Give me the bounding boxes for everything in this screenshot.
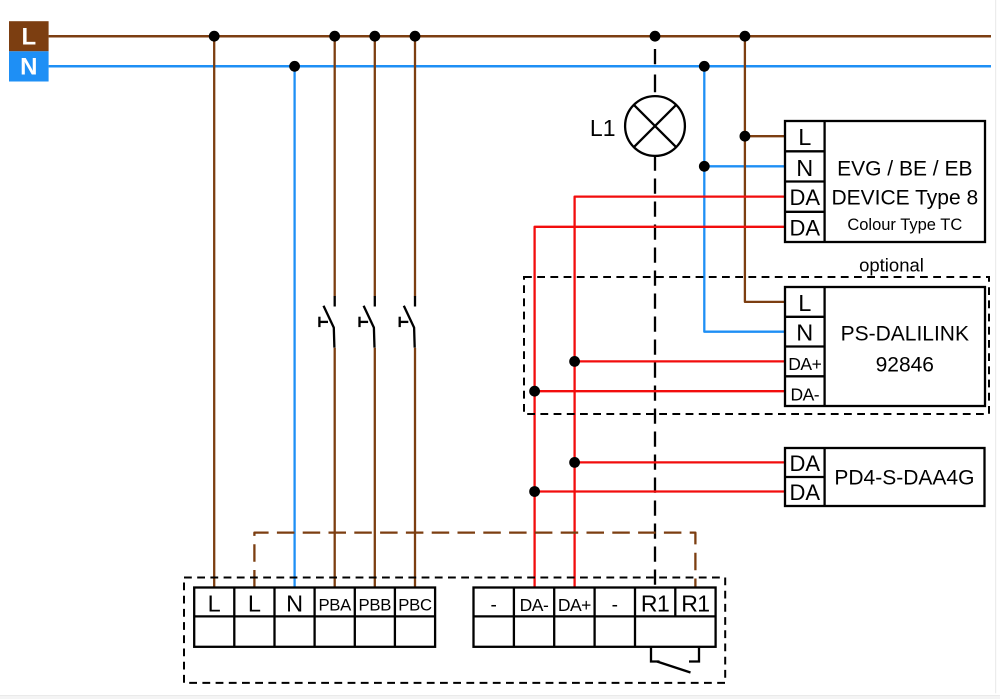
svg-text:DA: DA [790,185,821,210]
wire: brown from L bus to PS-DALILINK L [745,36,785,302]
junction: L bus / lamp dashed drop [650,31,661,42]
junction: DA+ / PS branch [569,356,580,367]
L bus terminal label [9,21,49,51]
EVG ballast U1 (DALI Device Type 8) [785,121,985,242]
wire: dashed lamp feed (L bus to lamp) [654,49,656,92]
left terminal block [194,588,435,647]
svg-text:N: N [20,54,37,81]
push button S1 (PBA) [319,296,334,348]
device dashed enclosure (bottom) [184,578,725,683]
svg-text:DA+: DA+ [788,354,821,374]
svg-text:DA-: DA- [520,595,549,615]
optional dashed enclosure [524,277,989,414]
svg-text:-: - [612,595,618,616]
svg-text:DA: DA [790,451,821,476]
svg-text:PBB: PBB [359,596,392,615]
svg-text:L: L [798,290,811,316]
svg-text:N: N [286,590,303,616]
wire: red DA+ branch to PS-DALILINK DA+ [575,360,785,362]
svg-text:L: L [21,24,36,51]
junction: L bus / S2 drop [369,31,380,42]
svg-text:DEVICE Type 8: DEVICE Type 8 [831,186,978,209]
svg-text:DA+: DA+ [558,595,591,615]
push button S3 (PBC) [400,296,415,348]
svg-text:PS-DALILINK: PS-DALILINK [841,322,969,345]
wire: red DALI DA- (EVG DA to terminal DA-) [535,227,785,588]
PS-DALILINK power supply U2 [785,287,985,406]
wire: L bus (brown) [49,35,991,38]
wire: red DA+ branch to PD4 DA [575,461,785,463]
svg-text:L: L [248,590,261,616]
wire: blue branch to EVG N [704,165,785,167]
svg-text:92846: 92846 [876,353,934,376]
wire: brown drop from L bus to push button S1 [334,36,336,296]
wire: red DA- branch to PD4 DA [535,490,785,492]
wire: blue drop from N bus to terminal N [293,66,295,588]
wire: brown drop from L bus to terminal L (left block) [213,36,215,588]
svg-text:L: L [208,590,221,616]
page footer strip [0,696,1000,699]
lamp L1 [625,96,685,156]
wire: push button S1 to terminal PBA [334,348,336,588]
wire: red DA- branch to PS-DALILINK DA- [535,390,785,392]
wire: dashed lamp to terminal R1 [654,156,656,588]
junction: L bus / S3 drop [410,31,421,42]
junction: brown drop / EVG L branch [740,131,751,142]
right terminal block [474,588,716,647]
junction: N bus / blue drop [699,61,710,72]
junction: N bus / N drop [289,61,300,72]
wire: push button S2 to terminal PBB [374,348,376,588]
svg-text:-: - [491,595,497,616]
wire: blue from N bus to PS-DALILINK N [704,66,785,331]
svg-text:N: N [796,155,813,181]
junction: L bus / brown drop [740,31,751,42]
junction: DA- / PD4 branch [529,486,540,497]
svg-text:DA: DA [790,215,821,240]
svg-text:N: N [796,320,813,346]
PD4 presence detector U3 [785,448,985,506]
wire: N bus (blue) [49,65,991,68]
wire: brown branch to EVG L [745,135,785,137]
relay contact R1 [651,647,699,673]
svg-text:L: L [798,124,811,150]
svg-text:R1: R1 [681,590,709,616]
junction: blue drop / EVG N branch [699,161,710,172]
svg-text:PBA: PBA [318,596,352,615]
svg-text:DA-: DA- [790,384,819,404]
wire: brown drop from L bus to push button S2 [374,36,376,296]
junction: DA+ / PD4 branch [569,457,580,468]
junction: L bus / left L drop [209,31,220,42]
svg-text:L1: L1 [590,115,616,141]
svg-text:R1: R1 [641,590,669,616]
wire: brown drop from L bus to push button S3 [414,36,416,296]
wire: red DALI DA+ (EVG DA to terminal DA+) [575,197,785,588]
svg-text:PD4-S-DAA4G: PD4-S-DAA4G [834,466,974,489]
svg-text:Colour Type TC: Colour Type TC [847,216,962,234]
junction: L bus / S1 drop [329,31,340,42]
svg-text:optional: optional [859,255,924,276]
push button S2 (PBB) [360,296,375,348]
svg-text:PBC: PBC [398,596,432,615]
wire: brown dashed link (terminal L to terminal R1) [254,533,695,588]
wire: push button S3 to terminal PBC [414,348,416,588]
svg-text:DA: DA [790,480,821,505]
page edge [995,0,997,693]
N bus terminal label [9,51,49,81]
svg-text:EVG / BE / EB: EVG / BE / EB [837,157,972,180]
junction: DA- / PS branch [529,386,540,397]
